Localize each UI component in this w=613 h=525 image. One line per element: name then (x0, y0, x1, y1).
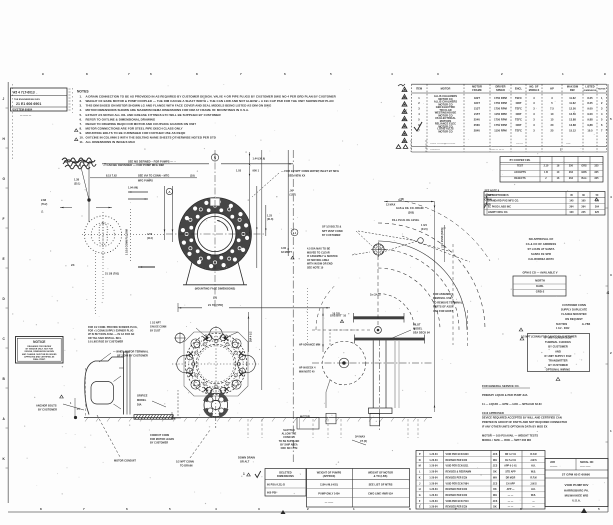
svg-text:SEA DECK 84: SEA DECK 84 (413, 331, 430, 334)
svg-text:WITH IN DIM OR END: WITH IN DIM OR END (307, 263, 333, 266)
svg-text:MFG PUMPS: MFG PUMPS (138, 180, 153, 183)
top right leader line (252, 173, 279, 197)
svg-text:FOR ASSEMBLY: FOR ASSEMBLY (433, 293, 453, 296)
top flange outer circle (179, 198, 252, 271)
svg-text:12.50: 12.50 (569, 112, 576, 116)
svg-text:325: 325 (594, 165, 599, 168)
svg-text:TEFC: TEFC (515, 129, 522, 133)
svg-text:7: 7 (128, 72, 130, 76)
top flange vertical centerline (214, 150, 216, 309)
svg-text:(114): (114) (147, 237, 153, 240)
svg-text:MAY CHANGE. MUST BE RE-ISSUED: MAY CHANGE. MUST BE RE-ISSUED (22, 353, 57, 356)
svg-text:SEE NOTE 10: SEE NOTE 10 (307, 267, 324, 270)
svg-text:VOID PUMP DIV: VOID PUMP DIV (565, 483, 590, 487)
svg-text:8.: 8. (80, 126, 83, 130)
svg-text:(73.2): (73.2) (41, 204, 47, 206)
svg-text:DR 4-7-61: DR 4-7-61 (505, 453, 517, 456)
svg-text:9: 9 (42, 72, 44, 76)
svg-text:DK: DK (493, 489, 497, 491)
svg-text:1 1/2 NPT: 1 1/2 NPT (150, 323, 161, 325)
BOM table frame (412, 83, 607, 85)
BOM table header row line (412, 92, 607, 94)
svg-text:REVISED PER ECN: REVISED PER ECN (446, 507, 468, 509)
vent leader dashed (356, 231, 372, 246)
small flange bore (211, 400, 220, 409)
svg-text:STD APP: STD APP (505, 471, 516, 474)
svg-text:110: 110 (595, 200, 600, 203)
svg-text:7: 7 (240, 72, 242, 76)
svg-text:MODEL: MODEL (137, 399, 147, 402)
oil drain small flange (373, 244, 384, 255)
svg-text:12 MAX: 12 MAX (386, 203, 396, 206)
svg-text:DIMENSION: DIMENSION (584, 90, 597, 92)
pump flange outer circle (185, 333, 247, 395)
svg-text:A DRAIN CONNECTION TO BE AS PR: A DRAIN CONNECTION TO BE AS PROVIDED IN … (86, 95, 337, 99)
pump flange leaders to labels (196, 328, 207, 338)
side nozzle dotted circle (84, 216, 121, 253)
pipe bottom flange (369, 408, 393, 414)
BOM flag triangle column (402, 87, 407, 91)
svg-text:H.K.: H.K. (531, 489, 536, 491)
svg-text:— —— —: — —— — (20, 115, 32, 118)
svg-text:24: 24 (71, 263, 75, 267)
svg-text:HP ADVANCE MIN: HP ADVANCE MIN (299, 344, 320, 347)
ground hatch ticks (85, 418, 88, 422)
svg-text:VOID PER ECN 7984: VOID PER ECN 7984 (446, 482, 470, 485)
svg-text:4.00: 4.00 (281, 247, 287, 250)
svg-text:10.5: 10.5 (587, 129, 593, 133)
svg-text:DIMENSIONS: DIMENSIONS (277, 474, 294, 478)
conduit box below base (297, 418, 319, 430)
swing arc partial outer (398, 200, 490, 261)
svg-text:ON REQUEST: ON REQUEST (565, 317, 583, 321)
pipe centerline (378, 340, 380, 432)
svg-text:WH: WH (493, 495, 497, 497)
svg-text:FINAL PRINT.: FINAL PRINT. (33, 358, 46, 361)
svg-text:5.: 5. (80, 113, 83, 117)
svg-text:G: G (419, 494, 421, 497)
svg-text:264: 264 (581, 205, 586, 208)
svg-text:MILWAUKEE WIS: MILWAUKEE WIS (565, 494, 589, 498)
bracket anchor leader (63, 404, 84, 410)
svg-text:OF 1/2 BOLTS &: OF 1/2 BOLTS & (322, 226, 342, 229)
svg-text:31 1/8 (791): 31 1/8 (791) (105, 273, 119, 276)
fan top dim line (384, 201, 435, 203)
top flange bolt ring dark annulus (187, 206, 244, 263)
svg-text:900 1: 900 1 (253, 170, 260, 173)
svg-text:REVISED PER ECN: REVISED PER ECN (446, 495, 468, 497)
svg-text:1750 RPM: 1750 RPM (494, 123, 507, 127)
border bottom line (8, 511, 608, 513)
svg-text:MOTOR CONDUIT: MOTOR CONDUIT (114, 460, 136, 463)
svg-text:1-20-84: 1-20-84 (429, 471, 438, 474)
leader diagonals to arcs (402, 236, 470, 262)
svg-text:1750 RPM: 1750 RPM (494, 118, 507, 122)
baseline ground line (84, 417, 300, 419)
svg-text:11.: 11. (80, 140, 84, 144)
pump flange corner lobes (232, 380, 241, 389)
svg-text:———: ——— (550, 466, 558, 469)
svg-text:RELEASED FOR REVIEW: RELEASED FOR REVIEW (27, 345, 51, 348)
leader circle joint (418, 238, 424, 244)
svg-text:1150 RPM: 1150 RPM (494, 112, 507, 116)
svg-text:USE FOR HOIST: USE FOR HOIST (433, 310, 454, 313)
vendor table (484, 192, 605, 216)
svg-text:1 1/2 - 300#: 1 1/2 - 300# (556, 327, 570, 330)
svg-text:(TYP): (TYP) (485, 203, 492, 206)
svg-text:1-20-84: 1-20-84 (429, 482, 438, 485)
oil flange cross (371, 249, 386, 251)
svg-text:IF ANY OTHER UNITS OPTION IN D: IF ANY OTHER UNITS OPTION IN DATA BY MOD… (482, 425, 548, 429)
svg-text:284U: 284U (474, 129, 480, 133)
svg-text:MODELS: MODELS (529, 89, 540, 92)
svg-text:FRAME: FRAME (472, 88, 482, 92)
svg-text:2x (14.5): 2x (14.5) (370, 294, 381, 297)
top flange rotation arc arrow (217, 221, 228, 231)
svg-text:WEIGHT OF BARE MOTOR & PUMP CO: WEIGHT OF BARE MOTOR & PUMP COUPLED — TH… (86, 99, 334, 103)
circled N datum (211, 154, 218, 161)
svg-text:1½: 1½ (77, 407, 80, 411)
svg-text:6: 6 (150, 72, 152, 76)
svg-text:2: 2 (610, 351, 612, 355)
handwritten scribble note (62, 158, 95, 162)
svg-text:REMOVAL USE: REMOVAL USE (433, 297, 452, 300)
svg-text:BAL: BAL (581, 177, 587, 180)
top flange horizontal centerline (166, 233, 264, 235)
svg-text:254U: 254U (474, 118, 480, 122)
conduit leader (97, 415, 120, 457)
svg-text:NORTH: NORTH (535, 279, 545, 283)
svg-text:1: 1 (353, 507, 355, 511)
svg-text:1.44 (36.6): 1.44 (36.6) (253, 158, 266, 161)
BOM handwritten check (414, 122, 422, 131)
svg-text:WEIGHT OF MOTOR: WEIGHT OF MOTOR (368, 472, 393, 475)
svg-text:7: 7 (83, 507, 85, 511)
svg-text:13.88: 13.88 (569, 118, 576, 122)
svg-text:5: 5 (330, 72, 332, 76)
svg-text:C110 APPROVED: C110 APPROVED (482, 411, 504, 415)
svg-text:25: 25 (551, 129, 554, 133)
svg-text:2: 2 (307, 507, 309, 511)
svg-text:6.: 6. (80, 117, 83, 121)
svg-text:3: 3 (437, 72, 439, 76)
svg-text:REVISED PER ECN: REVISED PER ECN (446, 489, 468, 491)
svg-text:8.25: 8.25 (587, 101, 593, 105)
svg-text:9.88: 9.88 (587, 123, 593, 127)
svg-text:8.25: 8.25 (587, 96, 593, 100)
small flange outer circle (204, 393, 228, 417)
border left line (7, 82, 9, 503)
horizontal dim line upper (102, 163, 209, 165)
svg-text:TRANSMITTER: TRANSMITTER (548, 359, 567, 363)
svg-text:4: 4 (391, 72, 393, 76)
svg-text:8: 8 (196, 72, 198, 76)
svg-text:MOUNTING BOLTS TO BE FURNISHED: MOUNTING BOLTS TO BE FURNISHED FOR FURTH… (86, 131, 186, 135)
svg-text:EXTENT AS NOTED ALL OIL AND GR: EXTENT AS NOTED ALL OIL AND GREASE FITTI… (86, 113, 222, 117)
upper thick bar gasket (354, 316, 405, 319)
svg-text:4: 4 (607, 290, 610, 295)
svg-text:264: 264 (569, 177, 574, 180)
svg-text:1: 1 (562, 72, 564, 76)
svg-text:NPT VENT CONN: NPT VENT CONN (322, 230, 343, 233)
svg-text:TO REMOVE TERMINAL: TO REMOVE TERMINAL (433, 301, 463, 304)
svg-text:ODP: ODP (516, 112, 522, 116)
svg-text:1 B: 1 B (544, 171, 548, 174)
svg-text:SANTA FE SPR: SANTA FE SPR (531, 252, 551, 256)
flange square corner marks (172, 412, 181, 418)
right dashed verticals (452, 244, 454, 345)
svg-text:VOID PER ECN 7613: VOID PER ECN 7613 (446, 501, 470, 503)
weight table (307, 469, 410, 508)
svg-text:160: 160 (581, 200, 586, 203)
svg-text:MOTOR DIMENSIONS SHOWN ARE MAX: MOTOR DIMENSIONS SHOWN ARE MAXIMUM NEMA … (86, 108, 250, 112)
svg-text:BY CUSTOMER: BY CUSTOMER (150, 442, 168, 445)
svg-text:1: 1 (610, 429, 612, 433)
svg-text:OPTIONAL WIRING: OPTIONAL WIRING (546, 368, 570, 372)
svg-text:#P IS BUT NON AVAIL — IN CA FO: #P IS BUT NON AVAIL — IN CA FOR AN (88, 333, 135, 336)
base anchor dot (74, 416, 77, 419)
svg-text:SEE VIEW XX: SEE VIEW XX (288, 173, 305, 177)
svg-text:10.: 10. (80, 136, 84, 140)
svg-text:(19): (19) (190, 174, 195, 177)
svg-text:BY CUST: BY CUST (150, 331, 161, 333)
svg-text:1-20-84: 1-20-84 (429, 476, 438, 479)
svg-text:U.S.A.: U.S.A. (572, 499, 581, 503)
svg-text:DIA 4 1/2: DIA 4 1/2 (250, 331, 253, 342)
pump flange leader dots (206, 336, 209, 339)
svg-text:250: 250 (569, 165, 574, 168)
svg-text:FOR MOTOR LEADS: FOR MOTOR LEADS (150, 438, 174, 441)
svg-text:NOTES: NOTES (598, 89, 606, 91)
svg-text:(305): (305) (408, 212, 414, 215)
svg-text:5: 5 (598, 507, 600, 511)
svg-text:ODP: ODP (516, 101, 522, 105)
svg-text:8.15 7.62: 8.15 7.62 (106, 174, 117, 177)
svg-text:R.F.M: R.F.M (530, 454, 536, 456)
left dark arrow (138, 266, 155, 268)
svg-text:JCS: JCS (493, 466, 498, 468)
svg-text:ODP: ODP (516, 123, 522, 127)
side nozzle dim arrows (128, 191, 148, 193)
left inner dashed line (12, 84, 14, 160)
svg-text:CONN 3/4: CONN 3/4 (283, 436, 295, 439)
small flange centerline (215, 396, 217, 428)
small flange bolt holes (219, 408, 224, 413)
svg-text:110# (49.9 KG): 110# (49.9 KG) (320, 484, 338, 487)
svg-text:1.1: 1.1 (293, 232, 297, 235)
bottom zone triangles (281, 510, 286, 514)
svg-text:······· ····················: ······· ···················· (430, 142, 456, 145)
below-base stub lines (247, 419, 249, 438)
svg-text:— FOR 1/2 NPT CONN WATER INLET: — FOR 1/2 NPT CONN WATER INLET BY MFG (281, 169, 339, 173)
svg-text:DOWN DRAIN: DOWN DRAIN (238, 457, 255, 460)
svg-text:CH APP: CH APP (506, 482, 515, 485)
right dim verticals group (256, 186, 258, 268)
svg-text:256U: 256U (474, 123, 480, 127)
svg-text:1-20-84: 1-20-84 (429, 459, 438, 462)
svg-text:1 3/4: 1 3/4 (421, 224, 427, 227)
upper bar end ticks (353, 313, 355, 323)
svg-text:AND: AND (555, 349, 561, 353)
pump flange inner circles (193, 341, 239, 387)
svg-text:NOTICE: NOTICE (33, 340, 45, 344)
circled 1.1 label (291, 229, 298, 236)
svg-text:F: F (3, 217, 5, 221)
revision history table (416, 451, 500, 510)
svg-text:(MOUNTING FACE DIMENSIONS): (MOUNTING FACE DIMENSIONS) (195, 288, 236, 291)
svg-text:600 PSI: 600 PSI (267, 492, 277, 495)
svg-text:SEE NOTE 8: SEE NOTE 8 (485, 190, 500, 193)
side nozzle crosshair (82, 234, 166, 236)
svg-text:OUTLINE IN COLUMN 3 WITH THE B: OUTLINE IN COLUMN 3 WITH THE BOLTING NAM… (86, 136, 216, 140)
spec underlines (482, 387, 530, 389)
svg-text:SUCTION: SUCTION (556, 323, 567, 326)
svg-text:1-20-84: 1-20-84 (429, 500, 438, 503)
pump flange horizontal centerline (172, 363, 259, 365)
svg-text:—— ——: —— —— (580, 466, 591, 469)
svg-text:M: M (419, 465, 421, 468)
bracket top flange tab (95, 357, 124, 361)
svg-text:REVISED PER ECN: REVISED PER ECN (446, 477, 468, 479)
svg-text:1/2 NPT: 1/2 NPT (485, 194, 495, 197)
svg-text:.50: .50 (290, 190, 294, 193)
horizontal dim line second (90, 177, 197, 179)
notes flag triangles (75, 129, 78, 132)
svg-text:5.8 LIKE RISE BY CUSTOMER: 5.8 LIKE RISE BY CUSTOMER (88, 340, 123, 343)
svg-text:PILOT: PILOT (413, 324, 421, 327)
svg-text:APPROVED AND CERTIFIED AS: APPROVED AND CERTIFIED AS (24, 355, 55, 358)
svg-text:···········: ··········· (430, 149, 440, 152)
svg-text:11.62: 11.62 (569, 101, 576, 105)
left leader dot (87, 198, 90, 201)
volute horizontal centerline (312, 362, 432, 364)
svg-text:A5 4 7LT-6013: A5 4 7LT-6013 (13, 91, 35, 95)
svg-text:DR MGR: DR MGR (506, 477, 516, 479)
svg-text:SLOTTED: SLOTTED (283, 429, 295, 432)
deleted dimensions table (265, 469, 306, 497)
svg-text:SUPPLY DUPLICATE: SUPPLY DUPLICATE (561, 308, 587, 312)
svg-text:(APPROX): (APPROX) (323, 475, 336, 478)
svg-text:15: 15 (551, 118, 554, 122)
svg-text:DIA: DIA (137, 403, 142, 406)
dimension line 21-7/8 (178, 307, 202, 309)
left of pump dotted vline (307, 288, 309, 345)
svg-text:CONDUIT CONN: CONDUIT CONN (150, 434, 169, 437)
svg-text:ITEM: ITEM (416, 88, 422, 91)
svg-text:ACCEPTS: ACCEPTS (514, 171, 526, 174)
svg-text:100: 100 (569, 211, 574, 214)
svg-text:— WHEN MOTOR TERMINAL: — WHEN MOTOR TERMINAL (113, 351, 149, 354)
svg-text:4.50: 4.50 (147, 232, 153, 236)
left dim ticks (60, 207, 72, 209)
svg-text:1750 RPM: 1750 RPM (494, 107, 507, 111)
title block (545, 459, 608, 507)
svg-text:W.B.: W.B. (531, 495, 536, 497)
svg-text:184T: 184T (474, 101, 480, 105)
svg-text:SEE LIST OF MTRS: SEE LIST OF MTRS (369, 484, 393, 487)
svg-text:EL PASO LABS INC: EL PASO LABS INC (488, 205, 511, 208)
svg-text:GAUGE CONN: GAUGE CONN (150, 326, 167, 329)
svg-text:325: 325 (594, 177, 599, 180)
BOM double flag bottom (396, 145, 401, 149)
left of trapezoid small flange (175, 333, 185, 343)
svg-text:7.5: 7.5 (550, 107, 554, 111)
svg-text:CONN: CONN (485, 199, 492, 202)
pump flange bolt holes (239, 368, 245, 374)
svg-text:N: N (419, 459, 421, 462)
svg-text:12.50: 12.50 (569, 107, 576, 111)
top flange keyway notch (210, 198, 220, 206)
pivot circle (375, 327, 382, 334)
svg-text:SEE VIA TO CONN – MTG: SEE VIA TO CONN – MTG (138, 174, 169, 177)
svg-text:264: 264 (569, 205, 574, 208)
svg-text:3: 3 (610, 273, 612, 277)
svg-text:BY CUSTOMER: BY CUSTOMER (38, 409, 57, 412)
thermal relief boxed note flag top (520, 337, 524, 340)
svg-text:1-20-84: 1-20-84 (429, 506, 438, 509)
svg-text:GAS & OIL CO. DRAIN: GAS & OIL CO. DRAIN (396, 207, 424, 210)
svg-text:13.88: 13.88 (569, 123, 576, 127)
svg-text:HP: HP (550, 87, 554, 91)
svg-text:WH: WH (493, 477, 497, 479)
pump flange bolt circle dashed (189, 337, 243, 391)
pump left casing line (326, 380, 330, 408)
svg-text:HAMPY MFG CO.: HAMPY MFG CO. (488, 211, 508, 214)
svg-text:······ ·· ··· ··: ······ ·· ··· ·· (490, 149, 504, 152)
svg-text:PARTS OF ASSY: PARTS OF ASSY (433, 306, 454, 309)
svg-text:1/2 NPT CONN: 1/2 NPT CONN (176, 461, 194, 464)
pivot vertical dashed line (377, 256, 379, 326)
svg-text:JOB: JOB (550, 461, 555, 464)
svg-text:CH 5-2-61: CH 5-2-61 (505, 460, 517, 462)
svg-text:MIN NOTE 40: MIN NOTE 40 (299, 370, 315, 373)
svg-text:···· ···: ···· ··· (516, 142, 523, 145)
swing arc solid (378, 241, 467, 330)
svg-text:MODEL: MODEL (413, 327, 423, 330)
svg-text:24 15/16 (633): 24 15/16 (633) (440, 228, 444, 246)
svg-text:4.5 DIA MAX TO BE: 4.5 DIA MAX TO BE (307, 248, 331, 251)
svg-text:3: 3 (258, 507, 260, 511)
svg-text:VOID PER ECN 8420: VOID PER ECN 8420 (446, 453, 470, 456)
foot pads below base (326, 413, 336, 424)
svg-text:182T: 182T (474, 96, 480, 100)
svg-text:21 E1 606 6901: 21 E1 606 6901 (16, 102, 41, 106)
scan noise speckles (12, 84, 605, 510)
svg-text:(35.1): (35.1) (74, 183, 80, 185)
svg-text:TO DRAIN: TO DRAIN (180, 464, 193, 467)
svg-text:(31.8): (31.8) (267, 219, 273, 221)
svg-text:8: 8 (409, 507, 411, 511)
svg-text:IF UNIT SUPPLY FOR: IF UNIT SUPPLY FOR (545, 354, 572, 358)
svg-text:BY CUSTOMER: BY CUSTOMER (322, 234, 341, 237)
svg-text:MOTOR CONNECTIONS ARE FOR STEE: MOTOR CONNECTIONS ARE FOR STEEL PIPE DIS… (86, 126, 183, 130)
svg-text:J.W.S: J.W.S (530, 460, 537, 462)
svg-text:— —: — — (508, 507, 514, 509)
svg-text:PRIMARY LIQUID & PER PUMP JH: PRIMARY LIQUID & PER PUMP JHA (482, 393, 528, 397)
svg-text:REFER TO OUTLINE & DIMENSIONAL: REFER TO OUTLINE & DIMENSIONAL DRAWING (86, 117, 156, 121)
svg-text:TEFC: TEFC (515, 107, 522, 111)
svg-text:9.00: 9.00 (587, 112, 593, 116)
svg-text:MOTOR: MOTOR (441, 87, 451, 91)
svg-text:8: 8 (40, 507, 42, 511)
bracket outline right of volute (394, 341, 396, 408)
leader V to pivot (358, 231, 417, 241)
notice box outer (16, 337, 64, 364)
service table (500, 157, 603, 183)
vendor table handwritten mark (484, 196, 487, 208)
svg-text:60 PSI (4.21) D: 60 PSI (4.21) D (267, 484, 285, 487)
svg-text:REFER TO DRAWING REQD FOR MOTO: REFER TO DRAWING REQD FOR MOTOR AND COUP… (86, 122, 197, 126)
